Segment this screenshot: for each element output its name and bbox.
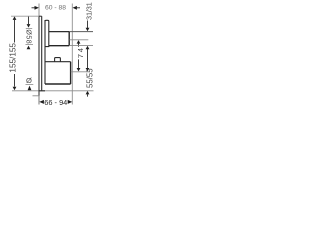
shut-off handle body bottom edge — [45, 83, 71, 85]
svg-text:155/155: 155/155 — [8, 43, 17, 73]
dimension D58: upper tick — [26, 27, 32, 29]
plate bottom edge / baseline extension — [12, 90, 94, 92]
dimension 55/55: bottom arrow — [86, 91, 90, 97]
svg-text:Ø: Ø — [26, 76, 32, 85]
dimension D58: lower tick — [26, 44, 34, 46]
svg-text:60 - 88: 60 - 88 — [45, 4, 66, 11]
plate bottom edge (object part) — [39, 90, 46, 92]
top dimension 60-88: left arrow — [32, 6, 39, 10]
bottom dimension 66-94: left arrow — [39, 100, 44, 104]
svg-text:66 - 94: 66 - 94 — [44, 98, 67, 107]
top dimension 60-88: right arrow — [73, 6, 81, 10]
dimension 155/155: top arrow — [13, 16, 17, 42]
svg-text:31/31: 31/31 — [84, 2, 93, 20]
wall line / left extension line — [38, 4, 40, 105]
dimension 74: top arrow — [77, 40, 81, 47]
dimension D58: bottom arrow — [27, 46, 31, 50]
body bottom tick (left) — [26, 84, 34, 86]
shut-off handle body front face — [70, 62, 72, 84]
thermostat handle bottom edge — [49, 45, 69, 47]
escutcheon plate top edge — [39, 15, 42, 17]
svg-text:55/55: 55/55 — [85, 68, 94, 88]
escutcheon plate top edge extension line — [11, 15, 39, 17]
top handle axis extension — [70, 39, 89, 41]
right extension line (front face, shared top/bottom dims) — [71, 4, 73, 105]
sleeve (D58) outline — [45, 20, 49, 46]
base front face line — [44, 20, 46, 84]
svg-text:74: 74 — [76, 46, 85, 58]
bottom handle axis extension — [71, 71, 87, 73]
shut-off handle body top edge — [45, 61, 71, 63]
dimension 155/155: bottom arrow — [13, 74, 17, 90]
svg-text:Ø58: Ø58 — [25, 29, 32, 44]
wall bottom tick — [33, 95, 40, 97]
escutcheon plate front face — [41, 16, 43, 91]
thermostat handle front face — [68, 32, 70, 46]
dimension D58: top arrow with tail from plate-top extension — [27, 17, 31, 28]
handle bottom extension line (31/31 lower) — [69, 45, 93, 47]
thermostat handle top edge + 31/31 upper extension — [49, 31, 69, 33]
bottom dimension 66-94: right arrow — [68, 100, 73, 104]
dimension 74: bottom arrow — [77, 59, 81, 71]
dimension 31/31: top arrow (points down to handle top edge) — [86, 21, 90, 32]
shut-off handle tab — [55, 58, 61, 62]
dimension 31/31: bottom arrow chained with 55/55 top arrow — [86, 46, 90, 72]
small up arrow under tick — [28, 86, 32, 91]
